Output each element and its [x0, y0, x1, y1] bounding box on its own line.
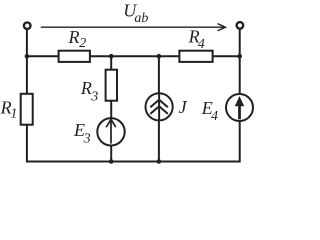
wire: E4 branch upper: [239, 56, 241, 94]
junction: top rail at R3 branch: [109, 54, 114, 59]
wire: left branch lower: [26, 125, 28, 162]
svg-text:R: R: [80, 78, 92, 98]
wire: terminal a to top rail: [26, 29, 28, 56]
wire: E3 to bottom rail: [110, 146, 112, 162]
svg-text:3: 3: [90, 90, 98, 105]
svg-text:4: 4: [211, 109, 218, 124]
emf source E3: [97, 118, 124, 145]
wire: left branch upper: [26, 56, 28, 94]
wire: bottom rail: [26, 160, 241, 162]
wire: Uab arrow line: [41, 24, 226, 31]
svg-text:R: R: [68, 27, 80, 47]
label R4: [188, 26, 205, 51]
label E3: [73, 120, 91, 146]
label E4: [201, 98, 218, 124]
junction: top rail at node b branch: [237, 54, 242, 59]
resistor R1: [21, 94, 33, 125]
wire: J branch upper: [158, 56, 160, 93]
wire: top rail middle segment: [90, 55, 179, 57]
svg-text:2: 2: [79, 36, 86, 51]
label Uab: [123, 1, 148, 26]
svg-text:ab: ab: [134, 11, 148, 26]
junction: bottom rail at E3 branch: [109, 159, 114, 164]
label R1: [0, 97, 17, 121]
node a terminal: [24, 22, 31, 29]
resistor R4: [179, 51, 212, 62]
emf source E4: [226, 94, 253, 121]
resistor R3: [106, 70, 117, 101]
junction: top rail at node left: [25, 54, 30, 59]
svg-text:4: 4: [198, 37, 205, 52]
wire: top rail right segment: [213, 55, 240, 57]
wire: R3 to E3: [110, 101, 112, 118]
wire: R3 branch upper: [110, 56, 112, 69]
node b terminal: [237, 22, 244, 29]
svg-text:1: 1: [10, 107, 17, 122]
svg-text:3: 3: [83, 132, 91, 147]
label R2: [68, 27, 87, 51]
label R3: [80, 78, 98, 105]
resistor R2: [59, 51, 90, 62]
wire: terminal b to top rail: [239, 29, 241, 57]
current source J: [146, 93, 173, 120]
wire: top rail left segment: [27, 55, 59, 57]
svg-text:J: J: [179, 97, 188, 117]
wire: E4 to bottom rail: [239, 121, 241, 162]
junction: bottom rail at J branch: [157, 159, 162, 164]
junction: top rail at J branch: [157, 54, 162, 59]
wire: J to bottom rail: [158, 120, 160, 161]
